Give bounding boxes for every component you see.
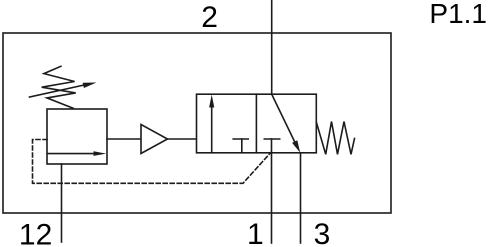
svg-text:12: 12 — [19, 218, 52, 247]
wire port 3 — [300, 153, 302, 243]
enclosure boundary — [3, 33, 391, 213]
valve right position: flow path 2 to 3 with arrow — [272, 94, 301, 153]
pilot line (dashed) regulator to valve — [33, 140, 271, 184]
valve left position: blocked port T — [233, 139, 248, 153]
svg-text:3: 3 — [314, 218, 331, 247]
label port 2 — [201, 1, 218, 34]
label P1.1 — [429, 0, 487, 29]
valve return spring — [316, 122, 354, 155]
regulator adjustment spring — [42, 66, 76, 108]
svg-text:2: 2 — [201, 1, 218, 34]
label port 12 — [19, 218, 52, 247]
wire port 2 (top supply line) — [271, 0, 273, 94]
regulator internal flow arrow — [48, 151, 107, 156]
valve right position: blocked port T (port 1) — [264, 139, 279, 153]
svg-text:1: 1 — [247, 218, 264, 247]
label port 3 — [314, 218, 331, 247]
wire port 1 — [271, 153, 273, 243]
pressure regulator body — [47, 109, 107, 164]
wire port 12 — [61, 164, 63, 242]
label port 1 — [247, 218, 264, 247]
svg-text:P1.1: P1.1 — [429, 0, 487, 29]
valve left position: flow arrow up — [209, 95, 214, 153]
valve V1 body (3/2-way valve, two positions) — [197, 94, 317, 153]
wire regulator to booster — [107, 138, 141, 140]
booster / amplifier triangle — [141, 125, 168, 154]
wire booster to valve — [168, 138, 197, 140]
regulator adjustment arrow — [30, 83, 97, 98]
